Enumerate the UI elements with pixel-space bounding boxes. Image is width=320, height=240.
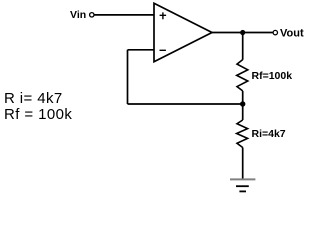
wire output node to Rf <box>242 33 244 60</box>
wire Rf to junction <box>242 91 244 120</box>
svg-text:Rf=100k: Rf=100k <box>252 70 293 82</box>
resistor Rf <box>237 60 248 91</box>
svg-text:Vout: Vout <box>280 28 304 40</box>
op-amp - pin marker <box>160 49 166 51</box>
svg-text:Vin: Vin <box>70 9 86 21</box>
resistor Ri <box>237 120 248 148</box>
wire output <box>211 32 273 34</box>
wire Vin to + input <box>94 14 154 16</box>
terminal Vout <box>273 30 277 34</box>
op-amp + pin marker <box>160 12 167 19</box>
wire feedback vertical <box>127 50 129 104</box>
svg-text:Ri=4k7: Ri=4k7 <box>252 128 286 140</box>
node output junction <box>240 30 245 35</box>
op-amp U1 <box>154 3 212 62</box>
terminal Vin <box>90 13 94 17</box>
note resistor values <box>4 90 72 123</box>
ground <box>230 179 255 191</box>
node feedback junction <box>240 101 245 106</box>
wire - input <box>128 49 155 51</box>
wire Ri to ground <box>242 148 244 180</box>
svg-text:R i= 4k7: R i= 4k7 <box>4 90 63 107</box>
svg-text:Rf = 100k: Rf = 100k <box>4 106 72 123</box>
wire feedback horizontal <box>128 103 243 105</box>
